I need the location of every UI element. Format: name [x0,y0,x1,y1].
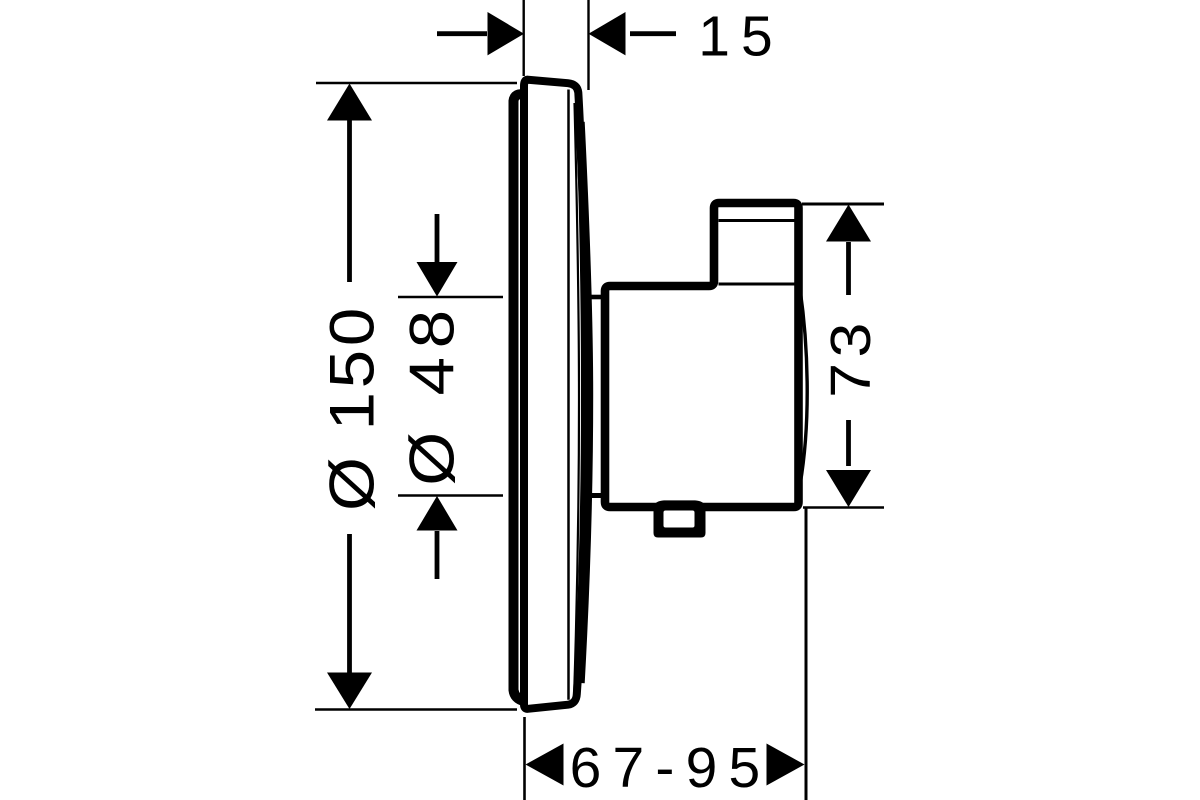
arrow d48 top [417,262,458,297]
svg-text:Ø 48: Ø 48 [397,301,467,486]
dim d48 lower segment [435,531,440,579]
extension line 15 right [587,0,589,90]
dim 15 left tail [437,31,487,36]
svg-text:Ø 150: Ø 150 [317,304,387,511]
bottom tab hole [664,511,695,528]
dome silhouette mid arc [580,122,589,683]
arrow d150 top [327,84,372,121]
flange stub bottom [590,493,603,498]
plate inner dome contour [574,103,579,692]
arrow 15 left [488,12,525,55]
arrow d48 bottom [417,496,458,531]
flange stub top [590,295,603,300]
dim 15 right tail [630,31,676,36]
valve body with pipe stub outline [605,203,799,507]
dim 73 upper segment [846,242,851,295]
extension line d150 bottom [315,708,517,711]
escutcheon back disc [514,94,526,701]
escutcheon front plate outline [524,80,585,709]
dim d48 upper segment [435,214,440,263]
svg-text:73: 73 [819,317,883,398]
extension line d150 top [316,82,517,85]
pipe bottom line [719,283,795,286]
arrow 73 top [826,205,871,242]
body right bulge arc [800,289,807,485]
extension line 73 bottom [803,506,884,509]
extension line 15 left [523,0,525,76]
dim d150 upper segment [347,119,352,282]
arrow 15 right [589,12,626,55]
extension line d48 top [398,296,503,299]
extension line 67-95 left [523,717,526,800]
svg-text:67-95: 67-95 [570,736,772,800]
arrow 67-95 left [526,744,564,786]
extension line d48 bottom [398,494,503,497]
extension line 73 top [802,203,884,206]
plate rim seam line [567,90,570,700]
svg-text:15: 15 [698,5,783,69]
arrow d150 bottom [327,673,372,710]
bottom tab [654,500,706,537]
arrow 67-95 right [767,744,805,786]
dim d150 lower segment [347,534,352,673]
extension line 67-95 right [805,508,808,800]
arrow 73 bottom [826,470,871,507]
dim 73 lower segment [846,420,851,466]
pipe inner line [719,219,795,222]
